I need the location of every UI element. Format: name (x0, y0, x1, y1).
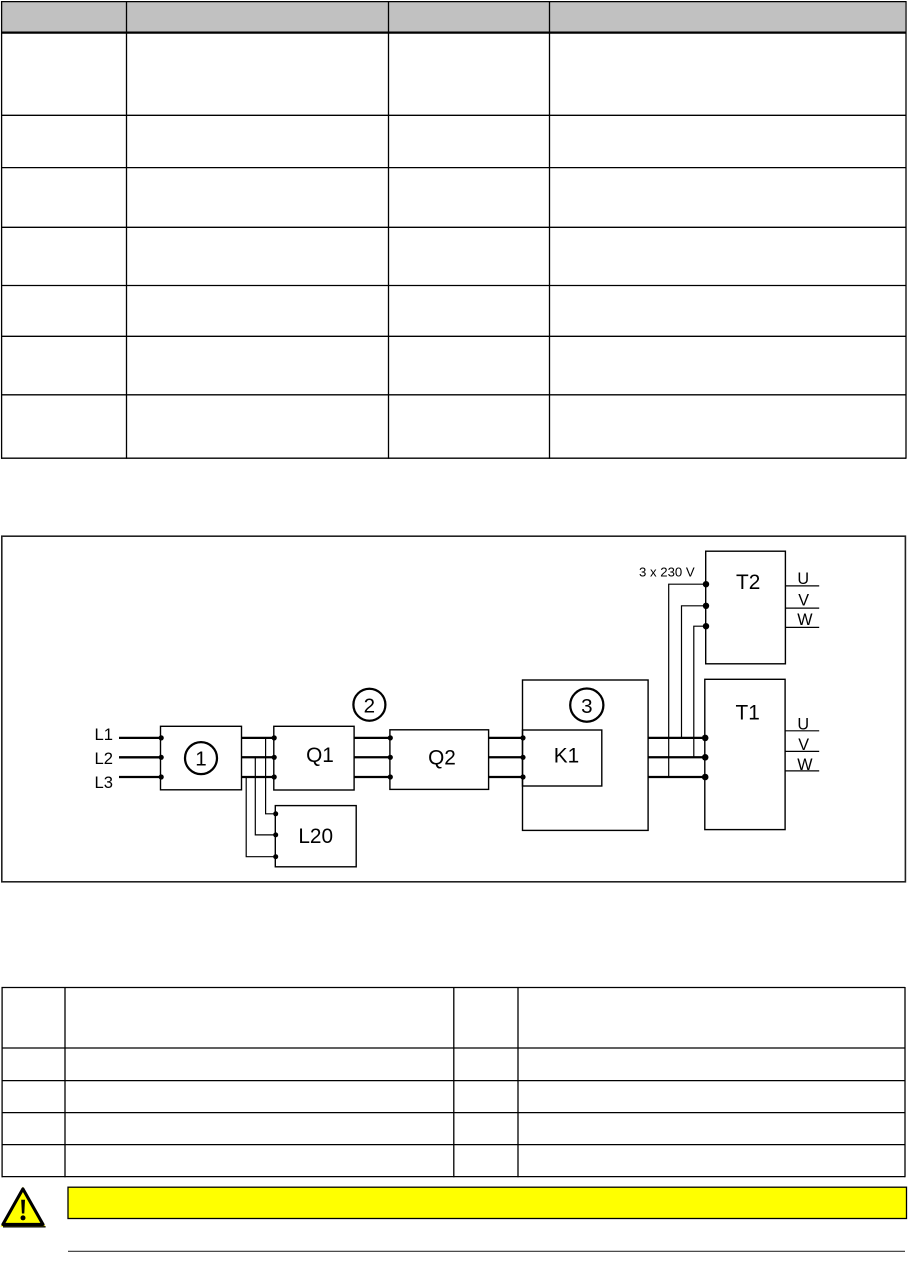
junction dot L1 at box 1 (159, 735, 164, 740)
T1 output line V (785, 750, 819, 752)
junction dot L3 at box 1 (159, 774, 164, 779)
wire phase2 Q1 to Q2 (354, 756, 390, 758)
junction dot at T2 pin W (703, 623, 709, 629)
wire branch phase1 up to T2 terminal V (682, 606, 706, 738)
junction dot at T2 pin V (703, 603, 709, 609)
wire branch phase1 down to L20 (266, 738, 276, 814)
enclosure box 3 (523, 680, 649, 830)
wire phase1 Q2 to enclosure 3 (489, 737, 523, 739)
svg-text:3 x 230 V: 3 x 230 V (639, 565, 695, 580)
wire phase2 box1 to Q1 (242, 756, 275, 758)
junction dot L20 pin 1 (273, 811, 278, 816)
warning triangle icon (0, 1187, 45, 1227)
transformer T1 (705, 679, 785, 829)
svg-text:U: U (797, 715, 809, 733)
T2 output line W (785, 626, 819, 628)
wire phase2 Q2 to enclosure 3 (489, 756, 523, 758)
wire phase3 box1 to Q1 (242, 776, 275, 778)
junction dot phase2 at T1 (702, 754, 709, 761)
breaker Q2 (390, 730, 489, 790)
junction dot phase3 at Q2 (388, 774, 393, 779)
svg-text:V: V (798, 592, 809, 610)
junction dot phase1 at K1 (520, 735, 525, 740)
junction dot phase2 at Q1 (272, 755, 277, 760)
T2 output line V (785, 607, 819, 609)
callout circle 1 (185, 742, 217, 774)
wire phase1 box1 to Q1 (242, 737, 275, 739)
power supply L20 (275, 806, 356, 867)
junction dot L2 at box 1 (159, 755, 164, 760)
wire phase3 enclosure to T1 (648, 776, 705, 778)
footer rule (68, 1250, 905, 1252)
svg-text:2: 2 (364, 694, 375, 717)
junction dot phase3 at T1 (702, 774, 709, 781)
wire phase3 Q2 to enclosure 3 (489, 776, 523, 778)
svg-text:W: W (797, 756, 813, 774)
warning highlight bar (68, 1187, 907, 1218)
schematic outer frame (2, 536, 906, 882)
svg-text:L20: L20 (298, 825, 333, 848)
wire branch phase3 up to T2 terminal U (669, 584, 706, 777)
svg-text:V: V (798, 736, 809, 754)
junction dot phase1 at Q1 (272, 735, 277, 740)
junction dot phase3 at K1 (520, 774, 525, 779)
wire L1 input (119, 737, 161, 739)
component box 1 (mains filter) (161, 726, 242, 790)
wire phase3 Q1 to Q2 (354, 776, 390, 778)
table 1 grid (1, 1, 906, 459)
wire phase2 enclosure to T1 (648, 756, 705, 758)
svg-text:L1: L1 (95, 725, 113, 744)
svg-text:L3: L3 (95, 773, 113, 792)
svg-text:W: W (797, 611, 813, 629)
svg-text:T2: T2 (736, 571, 760, 594)
junction dot phase2 at Q2 (388, 755, 393, 760)
svg-text:K1: K1 (554, 744, 579, 767)
wire phase1 enclosure to T1 (648, 737, 705, 739)
wire branch phase2 up to T2 terminal W (694, 626, 706, 757)
callout circle 3 (570, 689, 603, 722)
svg-text:3: 3 (581, 695, 592, 718)
junction dot phase1 at Q2 (388, 735, 393, 740)
callout circle 2 (353, 689, 385, 721)
svg-text:U: U (797, 570, 809, 588)
wire phase1 Q1 to Q2 (354, 737, 390, 739)
svg-text:T1: T1 (736, 702, 760, 725)
wire branch phase2 down to L20 (255, 757, 275, 835)
wire L3 input (119, 776, 161, 778)
contactor K1 (523, 730, 602, 786)
svg-text:Q1: Q1 (306, 744, 334, 767)
breaker Q1 (274, 726, 354, 790)
svg-text:Q2: Q2 (428, 746, 456, 769)
svg-text:1: 1 (195, 748, 206, 771)
junction dot phase2 at K1 (520, 755, 525, 760)
transformer T2 (706, 551, 786, 664)
junction dot L20 pin 2 (273, 832, 278, 837)
T1 output line U (785, 730, 819, 732)
T1 output line W (785, 770, 819, 772)
T2 output line U (785, 585, 819, 587)
junction dot phase1 at T1 (702, 735, 709, 742)
table 1 header row (gray) (2, 2, 905, 32)
junction dot L20 pin 3 (273, 854, 278, 859)
junction dot phase3 at Q1 (272, 774, 277, 779)
junction dot at T2 pin U (703, 581, 709, 587)
wire branch phase3 down to L20 (246, 777, 275, 857)
table 2 grid (2, 987, 906, 1177)
wire L2 input (119, 756, 161, 758)
svg-text:L2: L2 (95, 749, 113, 768)
